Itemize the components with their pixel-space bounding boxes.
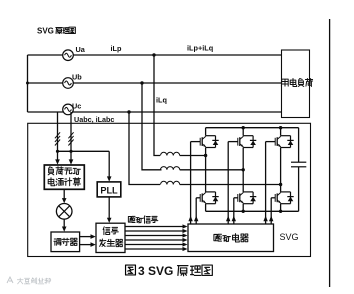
svg-text:3 SVG: 3 SVG	[138, 264, 173, 278]
svg-text:Ua: Ua	[76, 45, 86, 54]
svg-text:iLp+iLq: iLp+iLq	[187, 44, 213, 53]
svg-text:PLL: PLL	[100, 185, 118, 195]
svg-text:SVG: SVG	[279, 232, 298, 242]
svg-text:SVG: SVG	[37, 27, 54, 36]
svg-text:iLq: iLq	[156, 96, 167, 105]
svg-text:Uc: Uc	[72, 102, 81, 111]
svg-text:Ub: Ub	[72, 73, 82, 82]
svg-text:Uabc, iLabc: Uabc, iLabc	[74, 115, 114, 124]
svg-text:iLp: iLp	[111, 44, 122, 53]
